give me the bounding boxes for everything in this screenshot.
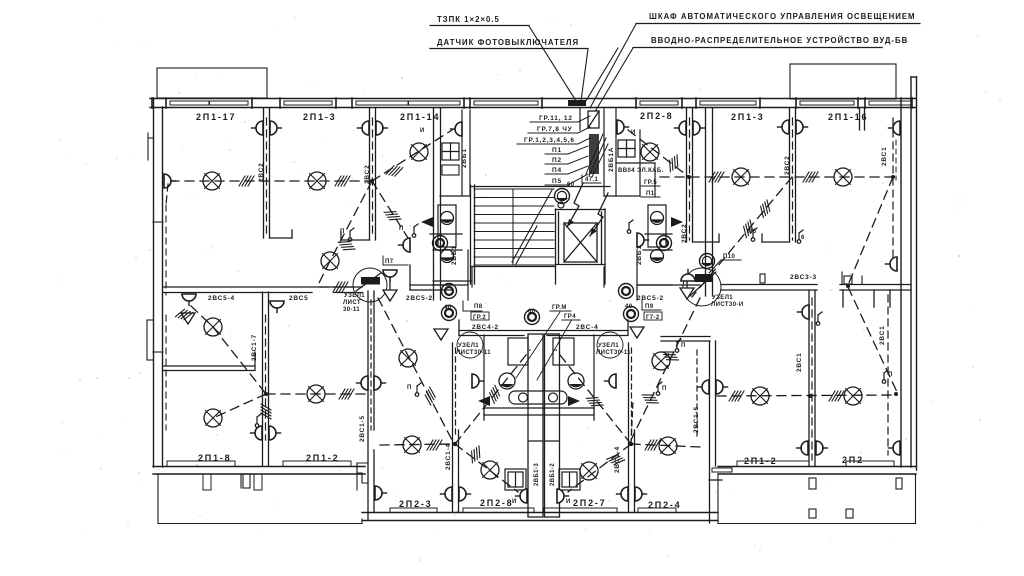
leader line extra <box>584 48 618 104</box>
lamp L6 <box>204 409 222 427</box>
wire W10 diag right wall <box>848 177 893 285</box>
annotation: photo-switch sensor label <box>430 38 588 49</box>
sconce pair P3 wall <box>675 121 687 135</box>
svg-text:П6: П6 <box>748 229 757 235</box>
lamp L17 <box>580 462 598 480</box>
lamp L11 <box>751 387 769 405</box>
small shelf rect left column <box>442 165 459 175</box>
stairwell left wall <box>471 185 475 284</box>
svg-text:П5: П5 <box>552 178 562 185</box>
sconce at node left <box>383 270 397 282</box>
lamp L12 <box>844 387 862 405</box>
partition x812 right rooms <box>809 291 815 466</box>
sconce right wall bottom <box>889 441 901 455</box>
bathroom box right <box>637 205 672 300</box>
svg-text:40: 40 <box>625 304 633 310</box>
svg-text:2ВС1-5: 2ВС1-5 <box>693 406 700 433</box>
label Gr5 <box>641 180 660 186</box>
switch at right bath <box>627 220 648 247</box>
sconce pair P2 wall <box>358 121 370 135</box>
sconce pair P1 wall <box>252 121 264 135</box>
label GR4 <box>562 314 580 320</box>
svg-text:2П1-17: 2П1-17 <box>196 112 236 122</box>
center module left wall <box>434 108 441 300</box>
hatch wire B diag <box>586 393 603 411</box>
stair treads <box>474 189 554 265</box>
node dot W7 left <box>687 175 691 179</box>
wire W3c node to vestibule <box>318 261 330 285</box>
lamp L18 <box>659 437 677 455</box>
svg-text:ГР.11, 12: ГР.11, 12 <box>539 115 573 122</box>
svg-text:И: И <box>566 499 571 505</box>
stair diagonal 2 <box>516 226 537 264</box>
sconce pair x630 bottom <box>617 487 629 501</box>
svg-text:2ВБ1-3: 2ВБ1-3 <box>534 463 540 486</box>
svg-text:2П1-3: 2П1-3 <box>731 112 764 122</box>
switch п right kitchen b <box>662 339 686 365</box>
svg-text:ГР.М: ГР.М <box>552 305 567 311</box>
partition wall x372 top <box>341 108 376 240</box>
sconce on left wall at W1 <box>164 174 176 188</box>
lamp L1 <box>203 172 221 190</box>
window sills right bottom <box>712 461 894 472</box>
toilet left 2 <box>441 250 454 263</box>
wire W3b to switch cluster <box>372 181 408 238</box>
lamp L16 <box>481 461 499 479</box>
svg-text:2П1-3: 2П1-3 <box>303 112 336 122</box>
svg-text:ШКАФ АВТОМАТИЧЕСКОГО УПРАВЛЕН: ШКАФ АВТОМАТИЧЕСКОГО УПРАВЛЕНИЯ ОСВЕЩЕНИ… <box>649 12 916 21</box>
svg-text:И: И <box>631 130 636 136</box>
riser 2VS1-5 x371 <box>359 300 371 442</box>
hatch on W3b <box>384 207 401 225</box>
svg-text:2П2: 2П2 <box>842 455 864 465</box>
wire W4b <box>213 327 266 394</box>
svg-text:ТЗПК 1×2×0.5: ТЗПК 1×2×0.5 <box>437 15 500 24</box>
label P10 box <box>709 254 741 273</box>
svg-text:2П2-8: 2П2-8 <box>480 498 513 508</box>
stove window grid right <box>618 140 635 157</box>
open triangle left corridor <box>434 329 448 340</box>
lamp L9 <box>834 168 852 186</box>
svg-text:ВВОДНО-РАСПРЕДЕЛИТЕЛЬНОЕ УСТРО: ВВОДНО-РАСПРЕДЕЛИТЕЛЬНОЕ УСТРОЙСТВО ВУД-… <box>651 36 908 45</box>
hatch on W5a <box>261 404 271 419</box>
stove window grid left <box>442 143 459 160</box>
svg-text:2ВБ1А: 2ВБ1А <box>608 147 615 172</box>
wire A down-right <box>455 444 518 492</box>
hatch bottom right of A <box>467 446 485 463</box>
label 47-1 box <box>582 175 601 183</box>
hatch on W14 <box>642 390 658 408</box>
sconce pair x455 bottom <box>441 487 453 501</box>
cable bundle hatched <box>586 134 608 177</box>
svg-text:2ВБ1: 2ВБ1 <box>461 148 468 168</box>
window sills top wall <box>170 101 911 105</box>
svg-text:УЗЕЛ1: УЗЕЛ1 <box>458 343 479 349</box>
washer circle left <box>499 373 515 389</box>
svg-text:2ВС4-2: 2ВС4-2 <box>472 324 499 331</box>
wire W9 diag down-left <box>692 177 792 297</box>
lamp L14 on W15 <box>399 349 417 367</box>
switch 6 at P4 bottom <box>797 230 805 243</box>
hatch wire A left <box>427 440 442 450</box>
label P8 box <box>463 301 483 311</box>
sconce near 2p2-4 left <box>375 486 387 500</box>
wall: left outer <box>154 98 163 467</box>
wire W14 diag node right to B <box>631 298 700 440</box>
uzel circle center-right <box>596 332 631 358</box>
wire W2 diagonal up-right <box>372 130 452 181</box>
sconce single right wall top <box>889 121 901 135</box>
label GRM <box>550 305 571 311</box>
lamp L15 <box>403 436 421 454</box>
vent shaft right center <box>545 334 560 517</box>
bath wall piece left <box>430 233 462 235</box>
bath lamp right <box>657 236 672 251</box>
wire A left <box>380 444 455 445</box>
balcony bottom-right outline <box>718 474 916 524</box>
label uzel1 right <box>711 295 744 308</box>
right module marks near wall <box>842 272 862 284</box>
switch п left kitchen <box>407 383 421 396</box>
sconce kitchen corridor right <box>605 374 617 388</box>
sconce cabinet M <box>617 120 636 136</box>
wall: top outer <box>150 99 916 108</box>
wire W1 left main <box>170 180 372 182</box>
svg-text:2ВС1: 2ВС1 <box>881 146 888 166</box>
wire W11 right wall riser link <box>848 287 897 392</box>
hatch on W9 a <box>756 200 774 218</box>
label P1 right <box>641 191 660 197</box>
filled triangle center left <box>478 396 490 406</box>
hatch W12 a <box>729 391 744 401</box>
svg-text:П4: П4 <box>552 167 562 174</box>
riser 2VS2 c <box>681 118 690 243</box>
svg-text:2П1-2: 2П1-2 <box>306 453 339 463</box>
lamp L13 on W14 <box>652 352 670 370</box>
hatch W7 b <box>803 172 818 182</box>
wire B up vertical <box>631 400 633 444</box>
wire W8 diag from cabinet <box>628 130 689 177</box>
vru cabinet box <box>588 111 599 128</box>
sconce pair at node right <box>681 270 695 282</box>
svg-text:ЛИСТ30-11: ЛИСТ30-11 <box>456 350 491 356</box>
corridor wall center module <box>459 320 628 336</box>
hatch on W5d <box>339 389 354 399</box>
wall: left bottom windowed <box>153 467 365 475</box>
sconce pair wall x368 <box>357 376 369 390</box>
riser 2VS2 a <box>258 118 267 236</box>
node circle left (uzel1) <box>353 268 387 302</box>
svg-text:2П1-14: 2П1-14 <box>400 112 440 122</box>
stair lamp <box>555 189 570 204</box>
stair center divider <box>512 189 514 265</box>
corridor wall under left bath <box>433 267 472 287</box>
svg-text:ГР4: ГР4 <box>564 314 576 320</box>
annotation: input distribution device label <box>633 36 908 48</box>
sconce single kitchen left <box>516 489 528 503</box>
svg-text:40: 40 <box>444 305 452 311</box>
wire W15 diag node left to A <box>378 298 452 440</box>
elevator shaft <box>556 209 606 284</box>
washer circle right <box>568 373 584 389</box>
partition x630 bottom <box>629 343 635 512</box>
node dot W1 junction <box>370 179 374 183</box>
toilet left 1 <box>441 212 454 225</box>
wire W4 left diagonal down <box>166 184 168 205</box>
riser left wall <box>165 205 167 295</box>
wire B down-left <box>568 444 631 492</box>
riser 2VS1 e <box>881 118 893 260</box>
svg-text:2П1-16: 2П1-16 <box>828 112 868 122</box>
stair diagonal <box>512 190 552 262</box>
hatch bottom left of B <box>607 451 625 468</box>
partition wall x792 top <box>762 108 796 242</box>
switch cluster left bath: sconce <box>399 224 419 252</box>
corridor wall left module <box>163 287 362 293</box>
svg-text:П1: П1 <box>552 147 562 154</box>
label uzel1 left <box>343 293 365 313</box>
sconce single kitchen right <box>557 489 569 503</box>
bath lamp left <box>433 236 448 251</box>
svg-text:2ВС1: 2ВС1 <box>879 325 886 345</box>
sconce center module top left <box>451 122 463 136</box>
partition x455 bottom <box>453 343 459 512</box>
sconce below corridor wall left <box>270 301 284 313</box>
svg-text:2ВБ1: 2ВБ1 <box>451 245 458 265</box>
corridor wall right module <box>721 285 911 308</box>
wire B up-left diag <box>556 350 631 444</box>
svg-text:2ВС3-3: 2ВС3-3 <box>790 274 817 281</box>
sconce pair x812 bottom <box>797 441 809 455</box>
toilet right 2 <box>651 250 664 263</box>
svg-text:П: П <box>888 372 893 378</box>
center module right wall <box>706 108 713 296</box>
svg-text:П: П <box>399 226 404 232</box>
open triangle right corridor <box>630 327 644 338</box>
leader line to sensor <box>529 26 576 101</box>
label GR2 box <box>471 312 489 321</box>
feed arrows in stair lobby <box>567 183 608 236</box>
lamp L3 on W2 <box>410 143 428 161</box>
hatch on W8 <box>665 155 683 172</box>
svg-text:60: 60 <box>567 182 575 188</box>
bathroom box left <box>433 205 468 300</box>
wire B right <box>631 444 700 447</box>
corridor lamp c3 <box>624 307 639 322</box>
svg-text:2ВС5-2: 2ВС5-2 <box>406 295 433 302</box>
wall: right outer <box>901 77 917 470</box>
lamp L2 <box>308 172 326 190</box>
corridor lamp c5 <box>619 284 634 299</box>
svg-text:П: П <box>407 385 412 391</box>
svg-text:П8: П8 <box>474 304 483 310</box>
svg-text:ВВ04 ЭЛ.КАБ.: ВВ04 ЭЛ.КАБ. <box>618 168 664 174</box>
partition stub x862 <box>860 108 865 130</box>
riser 2VS1 right low <box>879 295 888 455</box>
svg-text:П: П <box>340 229 345 235</box>
corridor lamp c4 <box>442 284 457 299</box>
corridor wall under right bath <box>604 267 700 287</box>
hatch on W9 b <box>739 220 757 238</box>
riser 2VS1-4 x455 <box>445 348 456 470</box>
hatch on W15 <box>422 387 438 405</box>
label P7 box <box>383 256 408 265</box>
wire W12 right bottom main <box>717 395 897 396</box>
svg-text:ЛИСТ30-11: ЛИСТ30-11 <box>596 350 631 356</box>
svg-text:2ВС2: 2ВС2 <box>681 223 688 243</box>
svg-text:60: 60 <box>528 309 536 315</box>
lamp L4 on W3 <box>321 252 339 270</box>
svg-text:2П2-3: 2П2-3 <box>399 499 432 509</box>
svg-text:ЛИСТ30-И: ЛИСТ30-И <box>711 302 744 308</box>
riser 2VS1-7 x265 <box>251 315 266 440</box>
riser 2VS2 b <box>364 118 373 238</box>
svg-text:ГР.7,8 ЧУ: ГР.7,8 ЧУ <box>537 126 573 133</box>
partition x410 bottom <box>357 463 368 490</box>
node B dot <box>629 442 633 446</box>
switch п6 at P3 bottom <box>748 228 757 241</box>
svg-text:П: П <box>681 343 686 349</box>
toilet right 1 <box>651 212 664 225</box>
label G7-2 box <box>644 312 662 321</box>
wire W5b junction left-down <box>213 394 266 418</box>
hatch on W1 b <box>335 176 350 186</box>
stair top landing line <box>470 186 610 188</box>
svg-text:2ВС5-2: 2ВС5-2 <box>637 295 664 302</box>
svg-text:2ВС1: 2ВС1 <box>796 352 803 372</box>
balcony top-left <box>157 68 267 98</box>
balcony top-right <box>790 64 896 99</box>
lamp at node right <box>700 254 715 269</box>
annotation: ТЗПК cable label <box>430 15 529 26</box>
vru column walls <box>580 108 640 196</box>
leader line to cabinet <box>590 24 636 108</box>
svg-text:6: 6 <box>801 235 805 241</box>
leader GRM <box>516 312 560 378</box>
svg-text:2П2-8: 2П2-8 <box>640 111 673 121</box>
svg-text:2П1-2: 2П1-2 <box>744 456 777 466</box>
svg-text:2ВБ1-2: 2ВБ1-2 <box>550 463 556 486</box>
node dot junction left-bottom <box>264 392 268 396</box>
sconce x812 upper <box>798 305 810 319</box>
svg-text:2ВС1-5: 2ВС1-5 <box>359 415 366 442</box>
riser 2VS1-4 x631 <box>614 348 632 473</box>
hatch wire A diag <box>486 385 503 403</box>
wall x368 vertical center-left <box>368 291 374 520</box>
right column walls (el. cabinet room) <box>616 130 655 196</box>
wall joint ticks top wall <box>152 98 912 108</box>
lamp L5 <box>204 318 222 336</box>
svg-text:УЗЕЛ1: УЗЕЛ1 <box>712 295 733 301</box>
svg-text:УЗЕЛ1: УЗЕЛ1 <box>598 343 619 349</box>
balcony bottom-left outline <box>158 474 362 524</box>
riser 2VS2 d <box>784 118 793 240</box>
svg-text:ГР.1,2,3,4,5,6: ГР.1,2,3,4,5,6 <box>524 137 575 144</box>
leader line to VUD device <box>596 48 633 110</box>
riser 2VS1 x893 upper small <box>895 140 897 180</box>
leader line to sensor 2 <box>581 49 588 101</box>
partition wall x265 top <box>264 108 293 238</box>
svg-text:30-11: 30-11 <box>343 307 360 313</box>
svg-text:2П2-7: 2П2-7 <box>573 498 606 508</box>
stair bottom landing wall <box>471 266 555 268</box>
lamp L10 on W8 <box>641 143 659 161</box>
uzel circle center-left <box>456 332 491 358</box>
vestibule wall piece <box>410 265 452 290</box>
stove grid bottom left <box>505 469 526 490</box>
hatch W7 a <box>709 172 724 182</box>
sensor black mark on top wall <box>568 100 586 106</box>
hatch on W2 <box>386 164 403 177</box>
wire W5d junction right <box>266 393 368 395</box>
hatch on W1 a <box>239 176 254 186</box>
wire corridor into node left <box>320 286 353 288</box>
exhaust triangle left bath <box>421 217 433 227</box>
sconce kitchen corridor left <box>472 374 484 388</box>
stair lamp small circle <box>558 202 564 208</box>
partition x703 bottom <box>661 337 722 524</box>
svg-text:2ВС2: 2ВС2 <box>784 155 791 175</box>
wall: right bottom windowed <box>718 467 916 475</box>
riser 2VS1-5 x697 <box>693 350 700 440</box>
leader GR4 <box>537 321 571 380</box>
left wall joint marks <box>147 133 163 360</box>
riser 2VS1 x812 <box>796 298 812 460</box>
svg-text:2ВС2: 2ВС2 <box>258 162 265 182</box>
switch п right kitchen a <box>656 382 667 395</box>
exhaust triangle right bath <box>671 217 683 227</box>
svg-text:2ВС-4: 2ВС-4 <box>576 324 599 331</box>
svg-text:ДАТЧИК ФОТОВЫКЛЮЧАТЕЛЯ: ДАТЧИК ФОТОВЫКЛЮЧАТЕЛЯ <box>437 38 579 47</box>
group labels stack <box>517 115 590 185</box>
arrow down at node right <box>680 281 694 299</box>
partition x265 bottom <box>263 292 269 466</box>
node dot W7 right <box>891 175 895 179</box>
wall: center bottom windowed <box>362 513 718 521</box>
svg-text:47.1: 47.1 <box>585 177 599 183</box>
lamp L7 <box>307 385 325 403</box>
window sills left bottom <box>167 461 351 490</box>
svg-text:ЛИСТ: ЛИСТ <box>343 300 361 306</box>
svg-text:П9: П9 <box>645 304 654 310</box>
svg-text:УЗЕЛ1: УЗЕЛ1 <box>344 293 365 299</box>
sconce right wall mid <box>886 257 898 271</box>
vent shaft left center <box>528 334 543 517</box>
switch right wall <box>882 370 893 383</box>
corridor wall left inner <box>163 352 255 371</box>
node A dot <box>453 442 457 446</box>
wire A up-right diag <box>455 350 530 444</box>
label P9 box <box>642 300 661 310</box>
switch п at P2 bottom <box>340 228 354 241</box>
svg-text:П1: П1 <box>646 191 655 197</box>
hatch W12 b <box>829 391 844 401</box>
kitchen inner walls center <box>484 335 594 409</box>
svg-text:И: И <box>512 499 517 505</box>
arrow down at node left <box>383 279 397 301</box>
kitchen T-lintel center <box>484 408 594 420</box>
sconce pair x265 bottom wall <box>251 426 263 440</box>
annotation: lighting control cabinet label <box>636 12 920 24</box>
partition wall x689 top <box>687 108 720 242</box>
wire W3 diagonal down to bath <box>330 181 372 261</box>
node circle right (uzel1) <box>683 268 765 306</box>
center module inner wall left column <box>440 110 470 196</box>
corridor lamp c1 <box>442 306 457 321</box>
bath oval center <box>509 391 567 404</box>
svg-text:2ВС1-7: 2ВС1-7 <box>251 334 258 361</box>
wire W7 right main <box>660 176 893 178</box>
